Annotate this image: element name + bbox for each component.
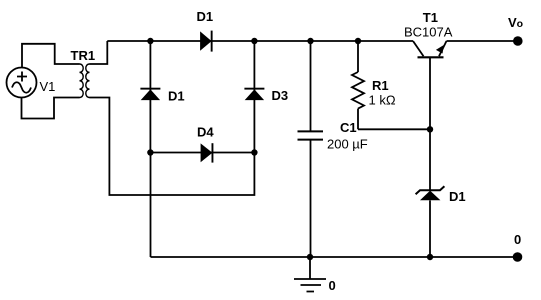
diode D1 bridge triangle [141, 89, 160, 100]
junction node top rail at D3 [251, 38, 257, 44]
zener diode D1 triangle [420, 191, 440, 201]
AC source V1 [7, 68, 37, 98]
svg-text:D4: D4 [197, 125, 214, 140]
junction node A bridge bottom left [147, 149, 153, 155]
capacitor C1 plates [298, 131, 324, 139]
wire secondary top to top rail [90, 41, 108, 64]
svg-text:200 µF: 200 µF [327, 137, 368, 152]
transistor T1 emitter diagonal [439, 41, 447, 56]
junction node base R1 zener [427, 126, 433, 132]
zener diode D1 lead top [429, 129, 431, 190]
svg-text:0: 0 [514, 232, 521, 247]
svg-text:Vo: Vo [508, 15, 523, 30]
diode D4 triangle and bar [201, 143, 213, 162]
svg-text:D1: D1 [197, 9, 214, 24]
svg-text:D1: D1 [449, 189, 466, 204]
diode D3 vertical wire [253, 41, 255, 153]
junction node B bridge bottom right [251, 149, 257, 155]
transistor T1 collector diagonal [413, 41, 424, 56]
zener diode D1 lead bottom [429, 200, 431, 257]
transistor T1 emitter arrow [436, 45, 444, 54]
wire node A down to bottom rail [150, 153, 152, 258]
transistor T1 base bar [418, 56, 444, 58]
wire secondary bottom to node B [90, 98, 255, 196]
wire bridge bottom D4 line [150, 152, 254, 154]
terminal 0 [513, 252, 523, 262]
resistor R1 zigzag [352, 72, 364, 109]
wire V1 top to transformer primary top [22, 44, 80, 68]
junction node top rail at D1 bridge [147, 38, 153, 44]
svg-text:D1: D1 [168, 89, 185, 104]
capacitor C1 top lead [310, 41, 312, 131]
svg-text:R1: R1 [372, 78, 389, 93]
transistor T1 base lead [429, 57, 431, 129]
wire top rail [107, 40, 413, 42]
svg-text:C1: C1 [340, 120, 357, 135]
junction node zener bottom [427, 254, 433, 260]
ground symbol [294, 257, 326, 292]
capacitor C1 bottom lead [310, 140, 312, 257]
svg-text:BC107A: BC107A [404, 25, 453, 40]
terminal Vo [513, 36, 523, 46]
resistor R1 leads [358, 41, 430, 129]
transformer TR1 primary winding [80, 64, 84, 98]
svg-text:1 kΩ: 1 kΩ [369, 93, 396, 108]
junction node top rail at R1 [355, 38, 361, 44]
svg-text:D3: D3 [272, 88, 289, 103]
svg-text:T1: T1 [423, 10, 438, 25]
transformer TR1 secondary winding [86, 64, 90, 98]
svg-text:TR1: TR1 [71, 48, 96, 63]
diode D1 top horizontal triangle and bar [200, 31, 212, 50]
wire emitter to Vo terminal [447, 40, 518, 42]
junction node top rail at C1 [307, 38, 313, 44]
diode D3 triangle [245, 89, 264, 100]
svg-text:0: 0 [329, 278, 336, 293]
zener diode D1 bar with ticks [416, 186, 445, 194]
wire bottom rail [151, 256, 518, 258]
junction node ground rail [307, 254, 313, 260]
wire V1 bottom to transformer primary bottom [22, 98, 80, 119]
svg-text:V1: V1 [40, 79, 56, 94]
diode D1 bridge left vertical wire [149, 41, 151, 153]
